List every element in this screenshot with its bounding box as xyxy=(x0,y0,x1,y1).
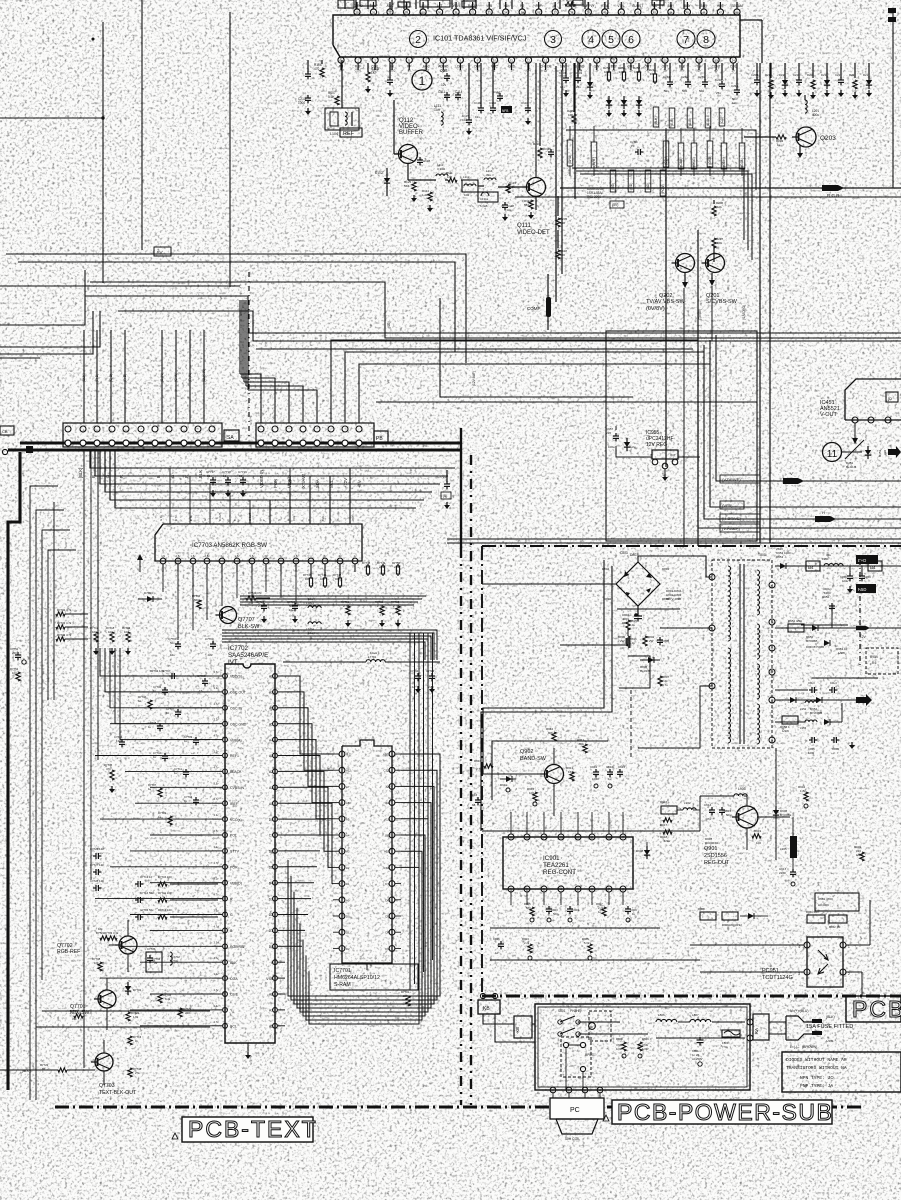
svg-text:220: 220 xyxy=(185,1011,190,1015)
svg-text:6: 6 xyxy=(628,34,634,46)
svg-text:(B-IN): (B-IN) xyxy=(160,373,164,382)
R7748 resistor xyxy=(367,564,369,566)
svg-text:13: 13 xyxy=(559,836,563,840)
R202 resistor top xyxy=(565,2,575,6)
resistor R7707 xyxy=(158,788,162,797)
svg-text:NPN TYPE: JC: NPN TYPE: JC xyxy=(800,1075,833,1081)
L902 inductor xyxy=(683,808,696,810)
svg-text:C9L3: C9L3 xyxy=(808,681,815,685)
svg-text:CD: CD xyxy=(589,1025,593,1029)
secondary output rows xyxy=(775,547,901,755)
R7745 resistor xyxy=(310,572,312,576)
C957 capacitor xyxy=(615,433,617,436)
C113 capacitor xyxy=(446,73,448,76)
svg-text:CH: CH xyxy=(507,208,511,212)
svg-text:1: 1 xyxy=(848,945,850,949)
svg-text:AC400V: AC400V xyxy=(818,903,829,907)
svg-text:1k: 1k xyxy=(777,143,781,147)
top left vertical 3 xyxy=(229,12,231,287)
-KB box xyxy=(514,1016,532,1038)
svg-text:COIL: COIL xyxy=(355,69,362,73)
svg-text:D5: D5 xyxy=(269,866,273,870)
svg-text:C7703: C7703 xyxy=(426,669,435,673)
svg-text:R908: R908 xyxy=(698,907,705,911)
C282 capacitor xyxy=(687,63,689,80)
R7733 resistor xyxy=(56,625,65,629)
svg-text:2SD1556: 2SD1556 xyxy=(704,853,727,859)
svg-text:12v: 12v xyxy=(560,85,565,89)
svg-text:3.2v: 3.2v xyxy=(214,1004,220,1008)
svg-text:D217: D217 xyxy=(863,73,870,77)
address bus staircase xyxy=(285,676,333,754)
svg-text:C113: C113 xyxy=(440,69,448,73)
svg-text:A12: A12 xyxy=(346,769,351,773)
svg-text:OUT: OUT xyxy=(351,515,355,521)
wire nest row2a xyxy=(572,168,744,240)
net label COL xyxy=(739,143,745,169)
wire bus B xyxy=(118,311,901,341)
svg-text:1000: 1000 xyxy=(824,591,831,595)
net label OSB xyxy=(707,141,713,167)
box around IC955 region xyxy=(606,331,757,541)
switch dashed box xyxy=(589,1011,611,1041)
svg-text:B4: B4 xyxy=(808,565,814,570)
svg-text:PNP TYPE: JA: PNP TYPE: JA xyxy=(800,1083,833,1089)
svg-text:A5: A5 xyxy=(346,817,350,821)
IC7702 teletext IC xyxy=(36,460,285,1059)
svg-text:A7: A7 xyxy=(269,691,273,695)
svg-text:.022: .022 xyxy=(207,653,213,657)
svg-text:3.2v: 3.2v xyxy=(214,718,220,722)
wire bottom double xyxy=(447,538,901,540)
svg-text:1u: 1u xyxy=(184,739,188,743)
svg-text:2W: 2W xyxy=(620,639,625,643)
svg-text:R110: R110 xyxy=(533,142,540,146)
wire band 1 xyxy=(95,450,448,476)
R7731 resistor xyxy=(406,996,410,1006)
svg-text:4.7u: 4.7u xyxy=(662,683,668,687)
IC7702 left pins xyxy=(223,674,228,679)
svg-text:TCDT1124G: TCDT1124G xyxy=(762,975,793,981)
svg-text:4: 4 xyxy=(771,584,773,588)
svg-text:D0: D0 xyxy=(346,915,350,919)
wire SCL left xyxy=(42,1010,210,1012)
C7715 row xyxy=(135,916,138,918)
R914 resistor xyxy=(484,764,493,768)
svg-text:D951: D951 xyxy=(776,555,784,559)
svg-text:100: 100 xyxy=(335,577,340,581)
C283 capacitor xyxy=(704,63,706,80)
svg-text:D4: D4 xyxy=(385,931,389,935)
svg-text:(BLK): (BLK) xyxy=(826,1015,835,1019)
R906 resistor xyxy=(588,944,592,953)
svg-text:G: G xyxy=(230,913,233,917)
divider dash vertical xyxy=(248,272,250,440)
svg-text:4.7v: 4.7v xyxy=(214,924,220,928)
net label BLK xyxy=(653,107,659,127)
svg-text:COMP: COMP xyxy=(527,306,541,311)
D953 diode xyxy=(824,640,830,646)
svg-text:SCL: SCL xyxy=(230,1025,237,1029)
resistor R7709 xyxy=(168,816,172,825)
svg-text:4.7v: 4.7v xyxy=(214,702,220,706)
svg-text:L951: L951 xyxy=(822,557,829,561)
svg-text:R951 1M: R951 1M xyxy=(806,910,818,914)
svg-text:4: 4 xyxy=(560,888,562,892)
svg-text:1: 1 xyxy=(711,576,713,580)
wire top right corner xyxy=(740,19,762,21)
svg-text:(CDB): (CDB) xyxy=(679,158,683,167)
svg-text:2W: 2W xyxy=(649,639,654,643)
IC101 section circle 4 xyxy=(582,30,600,48)
svg-text:NFB: NFB xyxy=(502,109,508,113)
svg-text:V-OUT: V-OUT xyxy=(820,412,837,418)
svg-text:G: G xyxy=(203,519,207,521)
wire right edge vertical xyxy=(892,11,894,188)
right stack 5 xyxy=(826,63,828,78)
svg-text:C959: C959 xyxy=(864,575,871,579)
svg-text:12v: 12v xyxy=(441,83,447,87)
R954 dashed box xyxy=(866,648,898,674)
IC101 section circle 5 xyxy=(602,30,620,48)
svg-text:C7713 10: C7713 10 xyxy=(140,875,153,879)
svg-text:2.2k: 2.2k xyxy=(394,565,400,569)
svg-text:FBP: FBP xyxy=(536,4,542,8)
svg-text:1000: 1000 xyxy=(592,777,599,781)
svg-text:B4YV 2800: B4YV 2800 xyxy=(666,597,682,601)
IC101 top pin row xyxy=(354,9,360,15)
svg-text:Q902: Q902 xyxy=(520,749,533,755)
IC101 section circle 2 xyxy=(410,31,427,48)
C953 capacitor xyxy=(809,689,812,691)
svg-text:(BLK): (BLK) xyxy=(82,373,86,382)
D806 diode xyxy=(640,659,660,661)
svg-text:B+D: B+D xyxy=(858,558,866,563)
svg-text:VBB(A): VBB(A) xyxy=(230,738,242,742)
IC7703 RGB switch xyxy=(155,468,362,572)
svg-text:39u: 39u xyxy=(486,173,491,177)
svg-text:1/2w: 1/2w xyxy=(630,445,636,449)
svg-text:50v: 50v xyxy=(726,813,731,817)
IC451 pins xyxy=(852,417,858,423)
svg-text:Q203: Q203 xyxy=(820,135,836,142)
IC955 12V regulator xyxy=(606,331,757,541)
svg-text:N=(+) (BLU): N=(+) (BLU) xyxy=(790,1009,808,1013)
wire band 0 xyxy=(90,450,455,468)
svg-text:1.5k: 1.5k xyxy=(133,1015,139,1019)
svg-text:SECAM: SECAM xyxy=(731,4,743,8)
svg-text:VTAL: VTAL xyxy=(617,4,625,8)
svg-text:[BLK]: [BLK] xyxy=(78,468,83,478)
capacitor cluster AC400V xyxy=(815,893,859,911)
svg-text:15: 15 xyxy=(199,689,203,693)
R207 resistor xyxy=(712,238,716,248)
R7750 resistor xyxy=(397,564,399,566)
svg-text:C2R4: C2R4 xyxy=(751,73,759,77)
C7719 capacitor xyxy=(242,477,244,480)
svg-text:25v: 25v xyxy=(716,91,721,95)
wire nest row2b xyxy=(576,171,748,250)
svg-text:6: 6 xyxy=(771,647,773,651)
svg-text:12v: 12v xyxy=(475,115,480,119)
svg-text:IC901: IC901 xyxy=(543,855,560,862)
svg-text:HM6264ALSP10/12: HM6264ALSP10/12 xyxy=(334,975,380,981)
F801 fuse xyxy=(722,1030,740,1037)
IC101 section circle 3 xyxy=(545,31,562,48)
C909 capacitor xyxy=(627,906,629,909)
svg-text:R808: R808 xyxy=(616,1037,623,1041)
C115 capacitor xyxy=(468,63,470,118)
svg-text:VDD: VDD xyxy=(383,753,389,757)
svg-text:560: 560 xyxy=(553,912,558,916)
svg-text:R7712 100: R7712 100 xyxy=(158,908,172,912)
R7744 resistor xyxy=(197,600,201,609)
capacitor C7710 xyxy=(164,753,166,756)
svg-text:1v: 1v xyxy=(544,69,548,73)
svg-text:C904: C904 xyxy=(572,908,579,912)
svg-text:50v: 50v xyxy=(239,474,244,478)
svg-text:R917: R917 xyxy=(660,823,668,827)
svg-text:IC101 TDA8361 VIF/SIF/VCJ: IC101 TDA8361 VIF/SIF/VCJ xyxy=(433,34,527,43)
net label CDA xyxy=(663,141,669,167)
svg-text:2.2k: 2.2k xyxy=(364,565,370,569)
svg-text:D0: D0 xyxy=(269,818,273,822)
net label 5V box xyxy=(154,247,171,256)
svg-text:11: 11 xyxy=(827,449,838,460)
right stack 3 xyxy=(798,63,800,78)
wire bridge input xyxy=(482,583,616,585)
svg-text:C7702: C7702 xyxy=(410,669,419,673)
svg-text:C9L4: C9L4 xyxy=(830,681,837,685)
svg-text:POL: POL xyxy=(230,834,237,838)
svg-text:1K: 1K xyxy=(650,72,654,76)
NFB black box xyxy=(501,106,512,113)
svg-text:R7733 4.7k: R7733 4.7k xyxy=(57,621,72,625)
R905 resistor xyxy=(530,907,534,916)
svg-text:C7706: C7706 xyxy=(197,674,206,678)
wire V-RAMP xyxy=(698,350,901,528)
svg-text:S801: S801 xyxy=(558,1009,566,1013)
svg-text:L7701: L7701 xyxy=(368,655,377,659)
wire loop right of IC7703 xyxy=(240,595,426,597)
svg-text:L905: L905 xyxy=(780,847,787,851)
svg-text:(V-DRIVE): (V-DRIVE) xyxy=(722,477,741,482)
transistor Q7707 xyxy=(220,607,237,624)
capacitor C7709 xyxy=(195,737,197,740)
data bus wrap below IC7701 xyxy=(288,754,440,996)
svg-text:Q901: Q901 xyxy=(704,846,717,852)
C203 capacitor xyxy=(577,63,579,76)
R7722 resistor xyxy=(126,1012,130,1021)
svg-text:3.2v: 3.2v xyxy=(214,781,220,785)
C7736 capacitor xyxy=(121,739,123,742)
svg-text:R453: R453 xyxy=(878,449,882,457)
svg-text:D1: D1 xyxy=(269,929,273,933)
svg-text:IN: IN xyxy=(681,69,684,73)
svg-text:C951 1000: C951 1000 xyxy=(776,551,791,555)
svg-text:5.5v: 5.5v xyxy=(250,554,256,558)
svg-text:+12V: +12V xyxy=(343,478,348,488)
svg-text:330: 330 xyxy=(883,450,887,455)
wire bus outer xyxy=(6,254,466,363)
svg-text:R954: R954 xyxy=(870,655,878,659)
svg-text:2-(0): 2-(0) xyxy=(428,685,434,689)
bottom right labels xyxy=(603,996,901,1125)
svg-text:1/2W: 1/2W xyxy=(856,853,863,857)
wire IC955 xyxy=(616,446,652,457)
R806 resistor xyxy=(643,636,647,646)
wire Q7703 xyxy=(0,1069,58,1071)
svg-text:R7743 47k: R7743 47k xyxy=(248,591,262,595)
wire VFB xyxy=(710,340,901,507)
svg-text:8: 8 xyxy=(771,699,773,703)
svg-text:4: 4 xyxy=(798,945,800,949)
svg-text:3.2v: 3.2v xyxy=(214,909,220,913)
svg-text:(PON): (PON) xyxy=(661,184,665,194)
C952 capacitor xyxy=(831,604,833,628)
svg-text:D102: D102 xyxy=(375,171,383,175)
svg-text:L112: L112 xyxy=(463,175,470,179)
row B+ top xyxy=(775,565,901,567)
svg-text:1u: 1u xyxy=(608,777,612,781)
C7709 capacitor xyxy=(177,641,179,644)
svg-text:A0: A0 xyxy=(269,802,273,806)
R909 box resistor xyxy=(722,912,738,920)
svg-text:T801: T801 xyxy=(758,553,766,557)
svg-text:C7726 120: C7726 120 xyxy=(90,847,104,851)
wire Q112 emitter xyxy=(407,164,409,180)
svg-text:CB: CB xyxy=(2,429,8,434)
svg-text:100: 100 xyxy=(320,577,325,581)
svg-text:80k: 80k xyxy=(548,731,553,735)
R105 resistor stack xyxy=(367,63,369,72)
svg-text:A9: A9 xyxy=(386,801,390,805)
svg-text:D215: D215 xyxy=(779,73,786,77)
svg-text:BUFFER: BUFFER xyxy=(399,130,424,136)
D251 diode xyxy=(621,100,627,105)
svg-text:10u: 10u xyxy=(170,653,175,657)
wire nest row1a xyxy=(566,130,756,190)
svg-text:(CDH): (CDH) xyxy=(722,157,726,167)
H-DRIVE arrow xyxy=(815,516,836,522)
svg-text:STTV: STTV xyxy=(230,850,240,854)
IC955 pins xyxy=(652,459,658,465)
wire horizontal y286 xyxy=(0,285,240,287)
connector SB bottom pin row xyxy=(258,440,264,446)
R250 resistor xyxy=(608,63,610,70)
R7747 resistor xyxy=(339,572,341,576)
svg-text:1000: 1000 xyxy=(298,101,305,105)
svg-text:C956: C956 xyxy=(832,747,839,751)
R812 resistor xyxy=(583,744,587,753)
svg-text:12V: 12V xyxy=(860,635,867,639)
wire Q202 down arrow xyxy=(684,273,686,282)
svg-text:BYV95E: BYV95E xyxy=(780,813,791,817)
R7703 resistor xyxy=(108,936,117,940)
capacitor C7711 xyxy=(185,769,187,772)
svg-text:50v: 50v xyxy=(699,89,704,93)
svg-text:IN: IN xyxy=(336,518,340,521)
svg-text:10: 10 xyxy=(607,836,611,840)
R7705 resistor xyxy=(110,770,114,780)
power board left border xyxy=(481,546,483,996)
C903 capacitor xyxy=(548,906,550,909)
svg-text:(GD): (GD) xyxy=(629,183,633,190)
T801 left pins xyxy=(709,574,715,580)
svg-text:R220: R220 xyxy=(807,73,814,77)
svg-text:VCE: VCE xyxy=(292,515,296,521)
svg-text:3.2v: 3.2v xyxy=(214,877,220,881)
svg-text:2v: 2v xyxy=(732,69,736,73)
svg-text:L=(-): L=(-) xyxy=(790,1045,797,1049)
R203 resistor xyxy=(776,135,786,139)
svg-text:Q111: Q111 xyxy=(517,223,531,229)
connector SA bottom pin row on board edge xyxy=(20,441,462,444)
svg-text:C952: C952 xyxy=(822,595,830,599)
relay coil dashed xyxy=(561,1037,591,1077)
C7706b capacitor xyxy=(204,678,206,681)
svg-text:(R-B): (R-B) xyxy=(123,374,127,382)
svg-text:1.5v: 1.5v xyxy=(235,554,241,558)
C7720 capacitor xyxy=(294,603,296,606)
svg-text:1.5v: 1.5v xyxy=(294,554,300,558)
svg-text:C7703: C7703 xyxy=(205,637,214,641)
C7718 capacitor xyxy=(227,477,229,480)
svg-text:2: 2 xyxy=(848,972,850,976)
svg-text:27k: 27k xyxy=(135,1071,140,1075)
C7716 capacitor xyxy=(149,955,151,958)
connector SB wire drops above staircase xyxy=(240,374,261,423)
svg-text:C114: C114 xyxy=(455,90,463,94)
R7738 resistor xyxy=(128,1068,132,1077)
svg-text:D3: D3 xyxy=(385,947,389,951)
svg-text:Y: Y xyxy=(262,519,266,521)
svg-text:C7727 120: C7727 120 xyxy=(90,863,104,867)
R7752b resistor xyxy=(16,672,20,681)
svg-text:C911: C911 xyxy=(590,765,597,769)
op-amp U IC7701 body xyxy=(342,740,392,963)
svg-text:4: 4 xyxy=(588,34,594,46)
svg-text:POR: POR xyxy=(230,866,238,870)
svg-text:C104: C104 xyxy=(489,101,497,105)
svg-text:BHY: BHY xyxy=(701,4,708,8)
KA box xyxy=(753,1014,769,1040)
left pin wires comb xyxy=(155,675,212,677)
svg-text:4.7v: 4.7v xyxy=(214,861,220,865)
svg-text:100: 100 xyxy=(634,70,639,74)
C105 capacitor stack xyxy=(389,63,391,78)
R952 box resistor xyxy=(788,624,804,632)
IC101 section circle 6 xyxy=(622,30,640,48)
svg-text:560: 560 xyxy=(194,598,199,602)
net label E-B 1 xyxy=(669,108,675,128)
svg-text:BLACK: BLACK xyxy=(230,770,242,774)
svg-text:OE: OE xyxy=(385,834,389,838)
svg-text:50v: 50v xyxy=(170,641,175,645)
svg-text:10k: 10k xyxy=(94,961,99,965)
svg-text:3.2v: 3.2v xyxy=(214,686,220,690)
wire Q201 down arrow xyxy=(711,273,713,280)
svg-text:A2: A2 xyxy=(346,866,350,870)
R7732 resistor xyxy=(56,612,65,616)
D250 diode xyxy=(606,100,612,105)
C914 capacitor xyxy=(711,807,713,810)
svg-text:DRIVE: DRIVE xyxy=(451,4,461,8)
svg-text:10k: 10k xyxy=(92,630,97,634)
D7703 diode xyxy=(138,598,162,600)
L952 inductor xyxy=(805,701,817,703)
svg-text:9: 9 xyxy=(622,836,624,840)
